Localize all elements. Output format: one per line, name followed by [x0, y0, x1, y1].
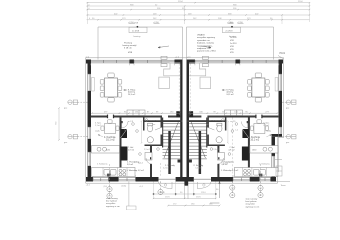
svg-text:wymiary w cm: wymiary w cm — [106, 205, 120, 208]
dark appliance L — [107, 174, 111, 177]
party chimney R — [189, 111, 193, 117]
entrance door swing R — [197, 182, 211, 189]
left-end dim marks — [89, 4, 92, 20]
living label R — [222, 89, 235, 96]
level marker +2.50 d — [237, 22, 244, 24]
dimension line row 2 — [87, 4, 311, 6]
svg-text:2x Ø18: 2x Ø18 — [230, 37, 237, 39]
left wall mid — [88, 91, 92, 127]
svg-text:2x Ø18: 2x Ø18 — [230, 43, 237, 45]
svg-text:2,9 m2: 2,9 m2 — [144, 149, 150, 151]
svg-text:w. 2,9: w. 2,9 — [230, 121, 235, 123]
bath door leaf R — [208, 128, 214, 131]
entrance door circle R — [203, 184, 205, 186]
window jamb ticks bottom L — [93, 175, 136, 177]
bath wall S L — [145, 145, 163, 147]
svg-text:h=2,2: h=2,2 — [223, 163, 228, 165]
chairs L — [100, 73, 122, 102]
inner dim line R — [227, 120, 229, 144]
leader 101 — [122, 182, 129, 207]
counter divisions L — [103, 168, 127, 177]
bottom wall pier corner-R — [271, 177, 277, 182]
bath wall S R — [207, 145, 225, 147]
axis dash x160 — [160, 163, 162, 177]
svg-text:wymiary w cm: wymiary w cm — [246, 205, 260, 208]
meter symbols left 1 — [68, 100, 88, 104]
svg-text:(101): (101) — [122, 186, 127, 188]
svg-text:gaz: gaz — [286, 107, 289, 109]
svg-text:bez tynkow: bez tynkow — [106, 200, 117, 203]
party wall left leaf — [180, 60, 182, 182]
interior dim string R — [189, 111, 278, 114]
svg-text:4,9 m2: 4,9 m2 — [128, 150, 135, 152]
counter bottom R — [234, 168, 278, 177]
shaft hatch L — [121, 129, 128, 138]
vent marker top wall L — [161, 56, 167, 66]
cabinet row L — [127, 110, 145, 116]
leader line kitchen L — [98, 135, 103, 137]
svg-text:gaz: gaz — [64, 107, 67, 109]
interior wall hall L — [150, 146, 152, 158]
window top R1 — [195, 60, 236, 63]
svg-text:2x Ø18: 2x Ø18 — [225, 31, 233, 33]
toilet L — [147, 123, 152, 132]
label P101 — [278, 52, 286, 58]
level marker +2.50 b — [153, 22, 160, 24]
roof overhang outline L — [98, 27, 183, 60]
svg-text:D2: D2 — [259, 195, 261, 197]
stair north wall R — [187, 120, 207, 122]
eaves outline right upper — [283, 58, 285, 138]
interior wall horiz Ra — [262, 116, 279, 118]
svg-text:1,2: 1,2 — [235, 130, 238, 132]
small box bottom — [127, 206, 137, 210]
svg-text:5,2 m2: 5,2 m2 — [163, 168, 169, 170]
svg-text:gaz: gaz — [286, 142, 289, 144]
porch party wall stub — [184, 182, 188, 186]
porch dim row 3 — [167, 203, 220, 206]
shaft block L1 — [121, 129, 128, 138]
floor-above outline L — [164, 63, 181, 76]
svg-text:w. 2,9: w. 2,9 — [128, 121, 133, 123]
vent marker top wall R — [202, 56, 208, 66]
interior wall horiz Rc — [189, 116, 201, 118]
door leaf kitchen R — [247, 122, 249, 129]
svg-text:budowie, stolarka: budowie, stolarka — [197, 42, 215, 45]
svg-text:4,9 m2: 4,9 m2 — [228, 150, 235, 152]
svg-text:AGD: AGD — [106, 148, 111, 151]
svg-text:24,9 m2: 24,9 m2 — [128, 94, 136, 96]
chimney R on roof line — [222, 27, 240, 32]
top wall pier R-party — [187, 60, 196, 64]
svg-text:poziom 0.00 = 98,5: poziom 0.00 = 98,5 — [197, 51, 216, 53]
bottom tiny texts — [104, 186, 144, 188]
chimney L dot — [137, 26, 139, 28]
party wall right leaf — [187, 60, 190, 182]
svg-text:10,1 m2: 10,1 m2 — [250, 138, 259, 141]
meter symbols right 2 — [282, 135, 296, 139]
right wall lower upper — [272, 137, 276, 156]
party dashed line L — [178, 64, 180, 116]
svg-text:wc: wc — [206, 124, 208, 126]
chimney L on roof line — [129, 27, 147, 32]
interior wall hall L2 — [150, 164, 152, 177]
stair newel R — [189, 160, 192, 163]
stair side wall L — [162, 118, 163, 148]
left vertical dim — [58, 107, 60, 141]
svg-text:wszystkie: wszystkie — [246, 203, 256, 206]
svg-text:O2: O2 — [259, 188, 262, 190]
svg-text:2,1 m2: 2,1 m2 — [95, 125, 101, 127]
bath door gap L — [160, 128, 162, 135]
interior wall horiz Rb — [207, 116, 256, 118]
note block left unit — [123, 42, 138, 55]
kitchen label L — [104, 136, 116, 142]
window bottom L1 — [93, 178, 109, 181]
eaves outline left — [85, 58, 87, 183]
svg-text:stan surowy: stan surowy — [106, 197, 119, 200]
stair north wall L — [162, 120, 182, 122]
stair treads L — [163, 121, 181, 159]
interior wall horiz Lb — [114, 116, 163, 118]
dark appliance R — [259, 174, 263, 177]
door leaf kitchen L — [121, 122, 123, 129]
svg-text:1,2: 1,2 — [124, 130, 127, 132]
porch dim row 2 — [153, 196, 217, 199]
window top L2 — [134, 60, 175, 63]
hall tiny notes L — [128, 147, 135, 152]
extra tiny texts R — [223, 121, 271, 165]
shaft hatch R — [242, 129, 249, 138]
stove burners R — [244, 169, 251, 176]
door leaf stubs L — [107, 115, 151, 160]
axis dash x260 up — [260, 164, 262, 181]
top wall pier L-corner — [86, 60, 91, 64]
interior wall kitchen R — [248, 118, 250, 175]
stair stringer R — [199, 131, 202, 174]
window bottom L2 — [119, 178, 136, 181]
counter divisions R — [242, 168, 266, 177]
window left wall 3 — [88, 152, 91, 166]
top wall pier L-mid — [130, 60, 135, 64]
entrance door circle L — [164, 184, 166, 186]
entrance door R threshold — [194, 178, 211, 180]
radiator side wall R — [275, 78, 278, 92]
party dashed line R — [189, 64, 191, 116]
grid bubbles x232 — [230, 181, 235, 198]
vent symbols R — [210, 119, 238, 156]
interior wall hall R — [217, 146, 219, 158]
entrance door swing L — [159, 182, 173, 189]
note block right unit — [197, 34, 216, 53]
svg-text:gaz: gaz — [64, 142, 67, 144]
chairs R — [248, 73, 270, 102]
porch dim row 1 — [153, 192, 217, 195]
svg-text:1. Wiatrolap 4,2 m2: 1. Wiatrolap 4,2 m2 — [221, 169, 239, 172]
eaves outline right jog — [278, 137, 284, 139]
door arc hall R — [217, 158, 223, 164]
shaft block L2 — [121, 147, 128, 161]
svg-text:fi 18 cm: fi 18 cm — [124, 48, 132, 50]
svg-text:1. Wiatrolap 4,2 m2: 1. Wiatrolap 4,2 m2 — [127, 169, 145, 172]
counter upper L — [92, 146, 120, 154]
text block bottom right — [246, 198, 260, 209]
right wall jog — [272, 134, 283, 137]
left wall lower — [88, 166, 92, 182]
leader arrow right unit — [200, 46, 211, 48]
bottom wall pier corner-L — [86, 177, 93, 182]
top wall pier R-corner — [279, 60, 283, 64]
dimension line row 4 — [87, 13, 311, 15]
window right wall 3 — [272, 156, 275, 169]
stair treads R — [189, 121, 207, 159]
svg-text:h=2,2: h=2,2 — [138, 163, 143, 165]
bath door leaf L — [155, 128, 161, 131]
window jamb ticks top L — [91, 64, 175, 66]
bath door gap R — [207, 128, 209, 135]
washer L — [145, 153, 152, 161]
grid bubble x160 — [158, 181, 163, 194]
sink bottom R — [253, 169, 265, 175]
svg-text:(90): (90) — [104, 186, 108, 188]
counter bottom L — [92, 168, 136, 177]
window top R2 — [240, 60, 279, 63]
grid bubbles x109 — [107, 181, 112, 198]
floor-above rect R — [200, 77, 211, 88]
svg-text:sprawdzic na: sprawdzic na — [197, 39, 211, 42]
hall label L — [127, 161, 145, 172]
bath wall W L — [143, 118, 145, 131]
door width marker 90 — [210, 182, 220, 204]
left wall upper — [88, 60, 92, 75]
svg-text:5. Kotlownia: 5. Kotlownia — [259, 163, 270, 166]
dimension extension lines — [88, 3, 310, 24]
bottom wall pier center — [176, 177, 194, 182]
extra tiny texts L — [95, 121, 143, 165]
dining table R — [252, 78, 265, 97]
toilet R — [217, 123, 222, 132]
svg-text:2,9 m2: 2,9 m2 — [213, 149, 219, 151]
kitchen table R — [250, 120, 268, 134]
meter symbols right 1 — [282, 100, 296, 104]
sink upper L — [97, 147, 107, 151]
left wall mid2 — [88, 139, 92, 152]
sink bottom L — [104, 169, 116, 175]
svg-text:2x Ø18: 2x Ø18 — [132, 31, 140, 33]
svg-text:wszystkie wymiary: wszystkie wymiary — [197, 36, 216, 39]
svg-text:7. Hol: 7. Hol — [128, 147, 134, 149]
living label L — [124, 89, 137, 96]
dimension line row 5 — [87, 18, 310, 20]
svg-text:stan surowy: stan surowy — [246, 198, 259, 201]
interior wall kitchen L — [120, 118, 122, 175]
shaft block R1 — [242, 129, 249, 138]
washer R — [217, 153, 224, 161]
hall tiny notes R — [228, 147, 235, 152]
door arc kitchen R — [241, 122, 248, 129]
window bottom R1 — [233, 178, 250, 181]
svg-text:5. Kotlownia: 5. Kotlownia — [97, 163, 108, 166]
interior dim string L — [91, 111, 180, 114]
entrance door L threshold — [159, 178, 176, 180]
bottom wall pier L3 — [136, 177, 159, 182]
cabinet row R — [224, 110, 242, 116]
svg-text:2,1 m2: 2,1 m2 — [263, 125, 269, 127]
bottom wall pier R3 — [211, 177, 233, 182]
terrace outline — [275, 120, 290, 182]
washbasin R — [216, 137, 222, 143]
window bottom R2 — [260, 178, 271, 181]
floor-above rect L — [159, 77, 170, 88]
axis dash x232 — [231, 118, 233, 178]
leader line kitchen R — [266, 135, 271, 137]
washbasin L — [147, 137, 153, 143]
party chimney L — [176, 111, 180, 117]
shaft block R2 — [242, 147, 249, 161]
kitchen label R — [248, 136, 260, 142]
grid bubbles x260 — [258, 181, 263, 198]
bottom wall pier R2 — [250, 177, 260, 182]
stair walk line L — [164, 122, 179, 159]
right wall lower bottom — [272, 169, 276, 182]
window left wall 1 — [88, 74, 91, 91]
bath wall E R — [207, 118, 209, 147]
interior wall hall R2 — [217, 164, 219, 177]
stair walk line R — [191, 122, 206, 159]
bottom wall pier L2 — [109, 177, 119, 182]
svg-text:D2: D2 — [159, 192, 161, 194]
door arc hall L — [146, 158, 152, 164]
chimney R dot — [231, 26, 233, 28]
stove burners L — [119, 169, 126, 176]
svg-text:wszystkie: wszystkie — [106, 202, 116, 205]
porch party wall thin — [185, 186, 188, 199]
level marker +2.50 a — [128, 22, 135, 24]
eaves outline top — [86, 57, 284, 59]
note col right unit — [230, 37, 237, 54]
axis dash x109 up — [109, 164, 111, 181]
bath north wall L — [143, 120, 162, 122]
interior wall horiz Lc — [168, 116, 180, 118]
svg-text:bez tynkow: bez tynkow — [246, 200, 257, 203]
svg-text:UWAGI:: UWAGI: — [197, 34, 205, 37]
bath north wall R — [207, 120, 226, 122]
svg-text:10,1 m2: 10,1 m2 — [106, 138, 115, 141]
svg-text:24,9 m2: 24,9 m2 — [226, 94, 234, 96]
eaves outline bottom — [86, 182, 278, 184]
misc tiny notes R — [195, 123, 270, 170]
window right wall 1 — [279, 74, 282, 91]
sink upper R — [263, 147, 273, 151]
svg-text:P101: P101 — [280, 52, 286, 55]
window top L1 — [91, 60, 130, 63]
door arc kitchen L — [122, 122, 129, 129]
dimension line row 3 — [87, 8, 311, 10]
top wall pier L-party — [175, 60, 183, 64]
dining table L — [105, 78, 118, 97]
leader arrow left unit — [158, 46, 169, 48]
floor-above outline R — [189, 63, 206, 76]
svg-text:Taras: Taras — [281, 184, 286, 187]
meter symbols left 2 — [68, 135, 88, 139]
bubble texts — [108, 187, 262, 197]
svg-text:kominy: kominy — [134, 36, 142, 38]
hall label R — [221, 161, 239, 172]
vent symbols L — [132, 119, 160, 156]
window jamb ticks bottom R — [234, 175, 277, 177]
right wall upper — [279, 60, 283, 75]
top wall pier R-mid — [236, 60, 241, 64]
dimension line row 1 — [87, 1, 311, 3]
window jamb ticks top R — [195, 64, 279, 66]
svg-text:5,2 m2: 5,2 m2 — [195, 168, 201, 170]
roof overhang outline R — [187, 27, 274, 60]
stair side wall R — [206, 118, 207, 148]
kitchen table L — [101, 120, 119, 134]
window right wall 2 — [279, 127, 282, 135]
inner dim line L — [141, 120, 143, 144]
svg-text:wc: wc — [153, 124, 155, 126]
svg-text:AGD: AGD — [252, 148, 257, 151]
bath wall W R — [225, 118, 227, 131]
eaves outline right lower — [277, 138, 279, 184]
svg-text:O1: O1 — [108, 189, 111, 191]
interior wall horiz La — [91, 116, 108, 118]
right wall mid — [279, 91, 283, 127]
door leaf stubs R — [218, 115, 262, 160]
porch extension lines — [154, 182, 216, 200]
level marker +2.50 c — [227, 22, 234, 24]
text block bottom left — [106, 197, 120, 208]
bath wall E L — [161, 118, 163, 147]
radiator side wall L — [92, 78, 95, 92]
svg-text:3,8 m2: 3,8 m2 — [127, 164, 134, 166]
svg-text:O1: O1 — [231, 187, 234, 189]
misc tiny notes L — [95, 123, 169, 170]
svg-text:D1: D1 — [231, 195, 233, 197]
window left wall 2 — [88, 127, 91, 139]
stair newel L — [178, 160, 181, 163]
counter upper R — [250, 146, 278, 154]
stair stringer L — [168, 131, 171, 174]
